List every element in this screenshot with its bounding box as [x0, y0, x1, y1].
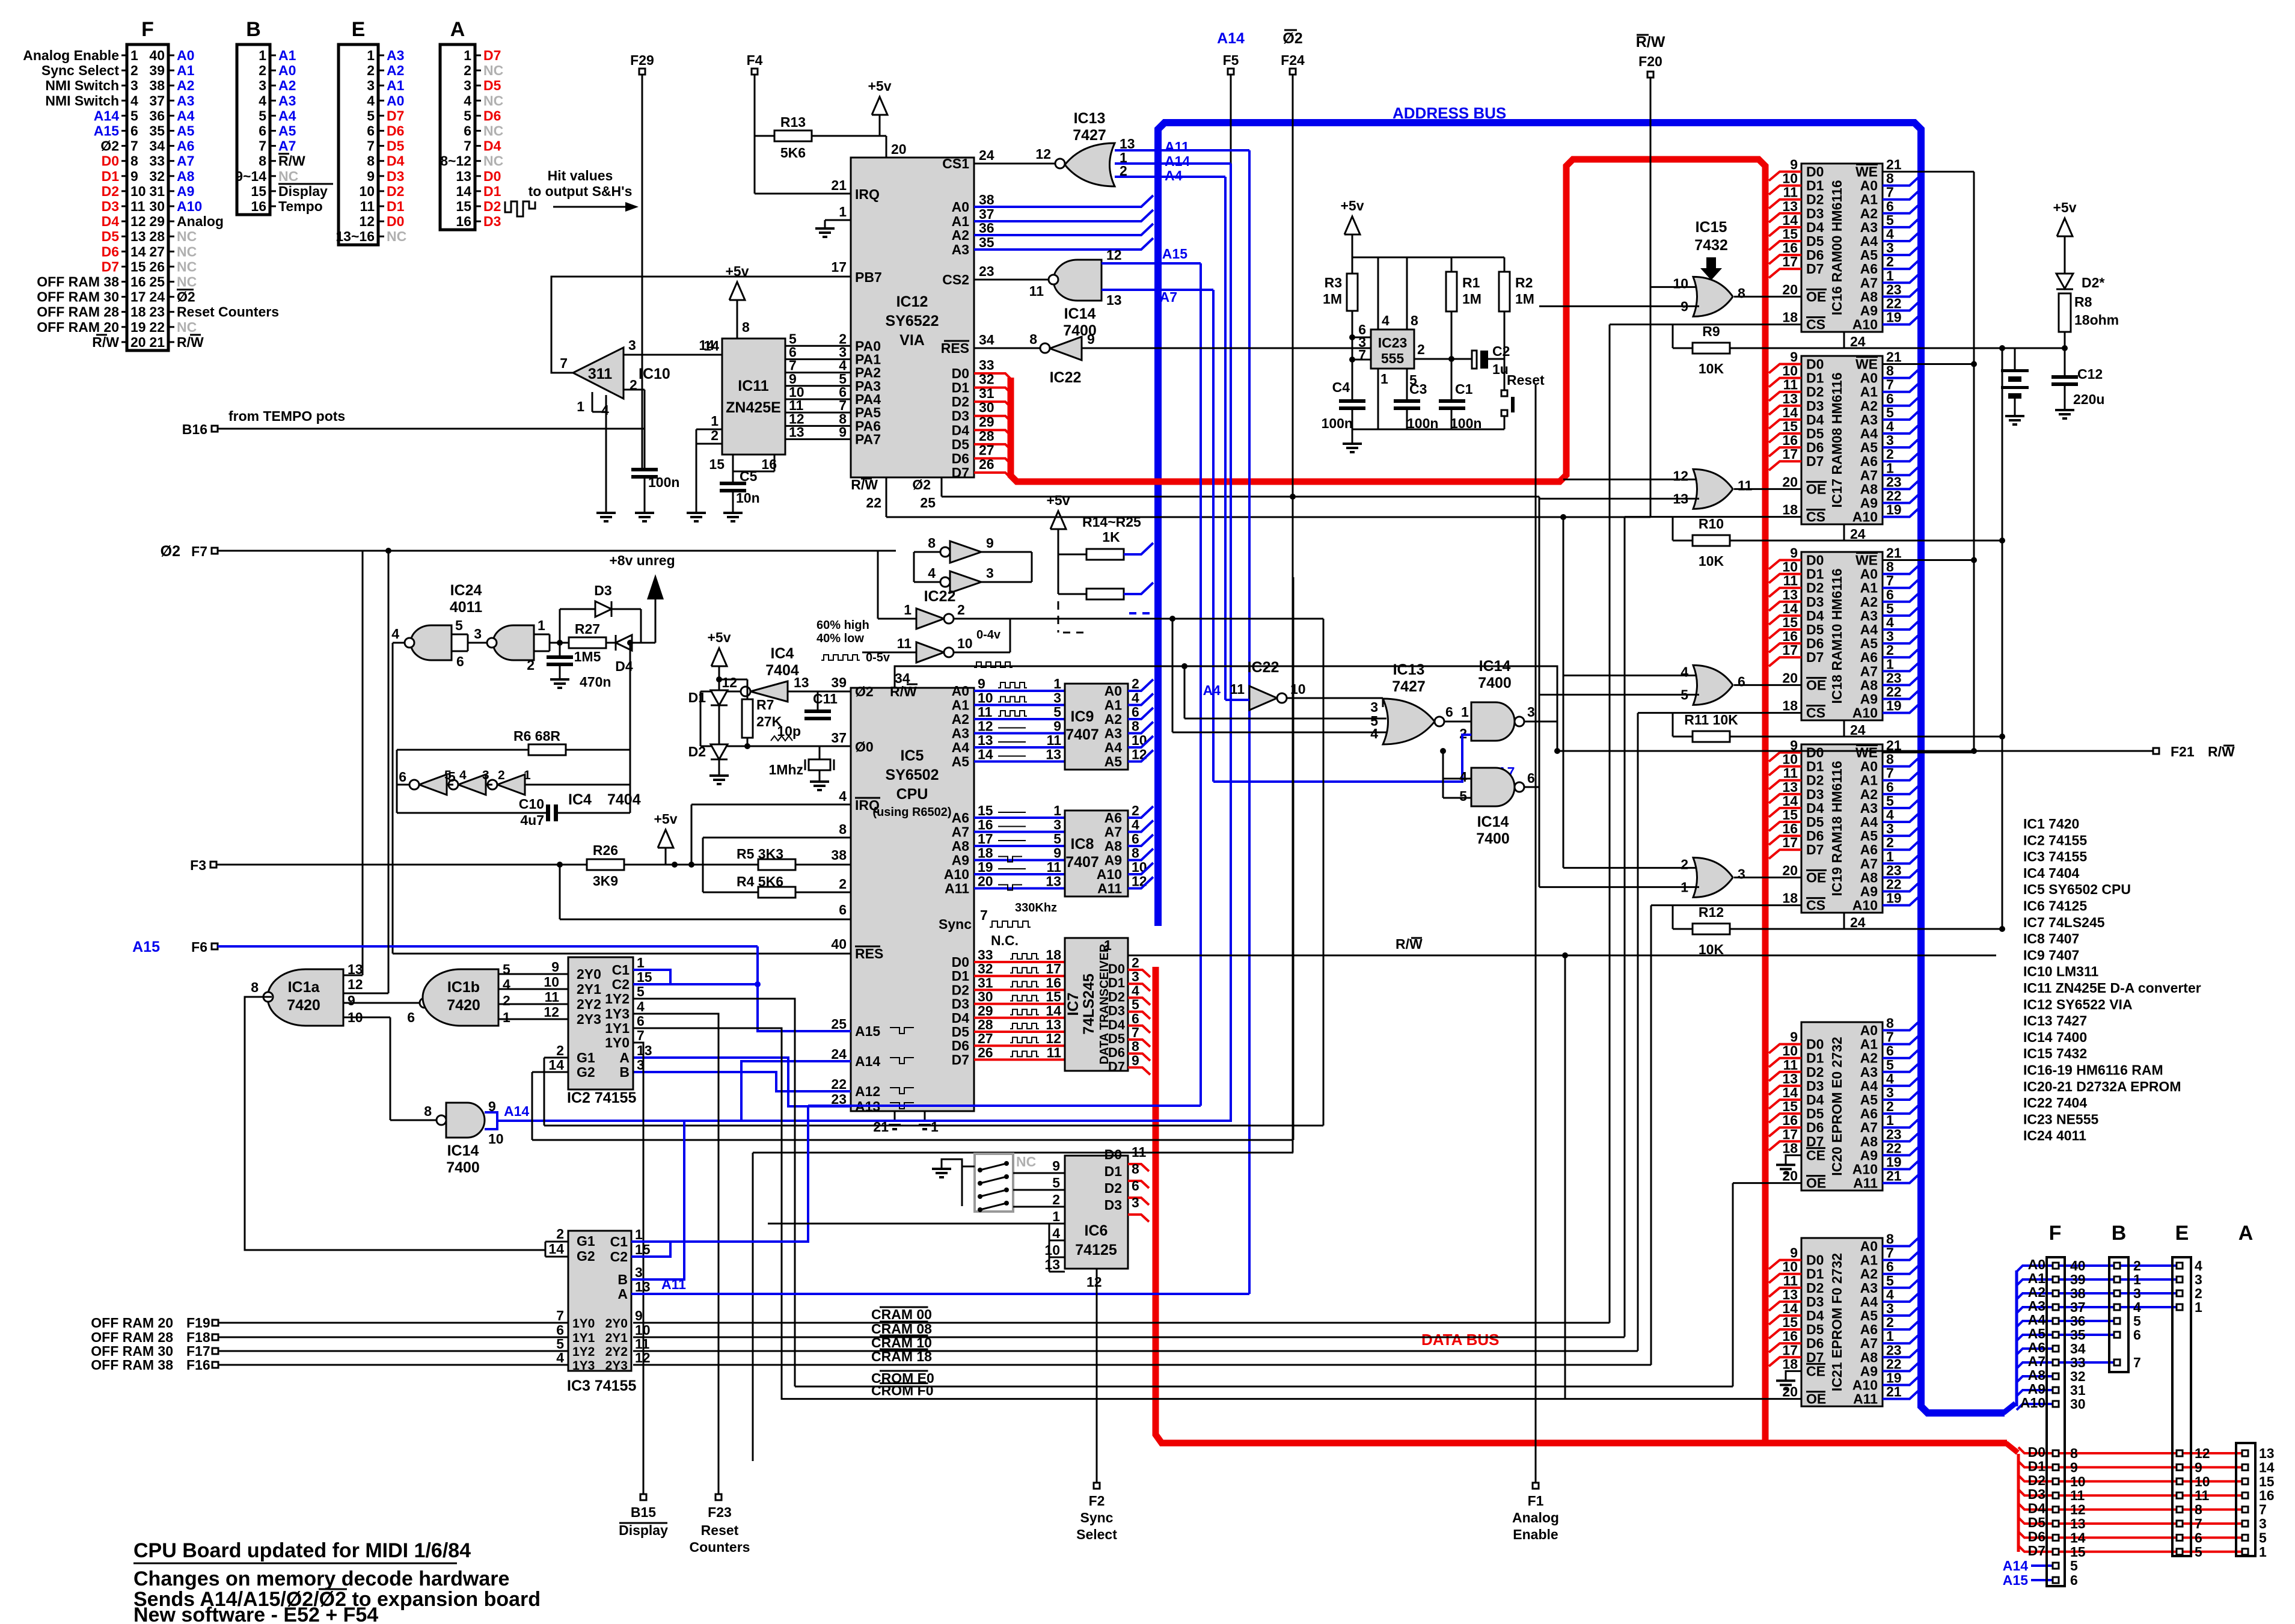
svg-text:35: 35	[979, 234, 994, 250]
svg-text:F29: F29	[630, 52, 654, 68]
svg-text:A0: A0	[1860, 759, 1878, 774]
svg-text:11: 11	[1047, 859, 1062, 875]
svg-text:31: 31	[978, 975, 993, 990]
svg-text:4: 4	[1132, 690, 1139, 706]
svg-text:D7: D7	[2028, 1543, 2045, 1558]
svg-text:E: E	[2175, 1222, 2189, 1245]
svg-text:2: 2	[1886, 642, 1894, 658]
svg-text:IC4: IC4	[771, 645, 794, 662]
svg-text:D0: D0	[387, 213, 404, 229]
svg-text:to output S&H's: to output S&H's	[529, 183, 633, 199]
svg-text:13: 13	[1044, 1257, 1060, 1272]
svg-text:D7: D7	[1806, 649, 1824, 665]
svg-text:74125: 74125	[1075, 1242, 1117, 1258]
svg-text:NC: NC	[177, 259, 197, 274]
svg-text:R/W: R/W	[1636, 34, 1665, 51]
svg-text:IC1 7420: IC1 7420	[2023, 816, 2079, 832]
svg-text:5: 5	[1886, 601, 1894, 616]
svg-text:D2: D2	[2028, 1472, 2045, 1488]
svg-text:4: 4	[1886, 226, 1894, 242]
svg-text:CPU: CPU	[896, 786, 928, 803]
svg-text:NC: NC	[483, 93, 503, 108]
svg-text:A5: A5	[278, 123, 296, 139]
svg-text:1: 1	[464, 47, 471, 63]
svg-text:1: 1	[577, 399, 584, 414]
svg-text:27: 27	[149, 244, 165, 259]
svg-text:7: 7	[367, 138, 375, 154]
svg-text:10K: 10K	[1699, 553, 1724, 569]
svg-text:20: 20	[130, 334, 146, 350]
svg-text:OFF RAM 28: OFF RAM 28	[37, 304, 119, 320]
svg-text:38: 38	[979, 192, 994, 207]
svg-text:A9: A9	[1860, 303, 1878, 319]
svg-text:IC16 RAM00 HM6116: IC16 RAM00 HM6116	[1829, 180, 1845, 316]
svg-text:D6: D6	[1806, 1335, 1824, 1351]
svg-text:4: 4	[637, 999, 645, 1014]
svg-text:13: 13	[1046, 1017, 1061, 1032]
svg-text:6: 6	[130, 123, 138, 139]
svg-text:16: 16	[1046, 975, 1061, 990]
svg-text:4u7: 4u7	[520, 812, 544, 828]
svg-text:Sync: Sync	[1080, 1510, 1114, 1525]
svg-text:2: 2	[503, 993, 510, 1008]
svg-text:IC5: IC5	[901, 747, 924, 764]
svg-text:A2: A2	[1860, 398, 1878, 414]
svg-text:D3: D3	[1806, 1294, 1824, 1310]
svg-text:D3: D3	[1806, 1078, 1824, 1094]
svg-text:A4: A4	[1165, 168, 1183, 183]
svg-text:D2: D2	[952, 982, 969, 997]
svg-text:A0: A0	[1860, 178, 1878, 194]
svg-text:A14: A14	[504, 1103, 529, 1119]
svg-text:18: 18	[1046, 947, 1061, 963]
svg-text:555: 555	[1381, 351, 1405, 366]
svg-text:3: 3	[2259, 1516, 2267, 1531]
svg-text:10: 10	[1782, 1043, 1798, 1059]
svg-text:18ohm: 18ohm	[2074, 312, 2119, 328]
svg-text:3: 3	[259, 78, 266, 93]
svg-text:A10: A10	[1852, 317, 1878, 332]
svg-text:10: 10	[1782, 559, 1798, 575]
svg-text:7432: 7432	[1694, 237, 1728, 254]
svg-text:D1: D1	[1806, 1266, 1824, 1282]
svg-text:35: 35	[149, 123, 165, 139]
svg-text:NC: NC	[483, 123, 503, 139]
svg-text:12: 12	[722, 675, 737, 690]
svg-text:IC9 7407: IC9 7407	[2023, 947, 2079, 963]
svg-text:3: 3	[1886, 628, 1894, 644]
svg-text:6: 6	[2195, 1530, 2202, 1545]
svg-text:A14: A14	[1217, 30, 1245, 47]
svg-text:6: 6	[1445, 704, 1453, 720]
svg-text:A9: A9	[1860, 495, 1878, 511]
svg-text:16: 16	[978, 817, 993, 833]
svg-text:7: 7	[2133, 1355, 2141, 1370]
svg-text:B: B	[619, 1064, 630, 1080]
svg-text:13: 13	[2070, 1516, 2086, 1531]
svg-text:A7: A7	[1105, 824, 1122, 840]
svg-text:IC24 4011: IC24 4011	[2023, 1128, 2086, 1144]
svg-text:A2: A2	[952, 227, 969, 243]
svg-text:5: 5	[367, 108, 375, 123]
svg-text:A3: A3	[1860, 1064, 1878, 1080]
svg-text:D3: D3	[387, 168, 404, 184]
svg-text:1M: 1M	[1515, 291, 1534, 307]
svg-text:CRAM 00: CRAM 00	[871, 1307, 932, 1322]
svg-text:5: 5	[1053, 831, 1061, 847]
svg-text:A6: A6	[952, 810, 969, 826]
svg-text:24: 24	[1850, 526, 1866, 542]
svg-text:4: 4	[259, 93, 266, 108]
svg-text:2: 2	[556, 1043, 564, 1058]
svg-text:1Y0: 1Y0	[605, 1035, 630, 1050]
svg-text:A10: A10	[2020, 1395, 2045, 1411]
svg-text:2: 2	[1132, 676, 1139, 691]
svg-text:IC9: IC9	[1071, 708, 1094, 725]
svg-text:D1: D1	[483, 183, 501, 199]
svg-text:8: 8	[1886, 1016, 1894, 1031]
svg-text:9: 9	[1790, 1029, 1798, 1045]
svg-text:21: 21	[1886, 349, 1902, 365]
svg-text:D5: D5	[483, 78, 501, 93]
svg-text:A3: A3	[952, 726, 969, 741]
svg-text:30: 30	[978, 989, 993, 1005]
svg-text:R9: R9	[1702, 323, 1720, 339]
svg-text:D0: D0	[2028, 1444, 2045, 1460]
svg-text:A1: A1	[177, 63, 195, 78]
svg-text:NC: NC	[177, 319, 197, 335]
svg-text:D2: D2	[1806, 1064, 1824, 1080]
svg-text:13: 13	[1782, 391, 1798, 406]
svg-text:10: 10	[488, 1131, 504, 1147]
svg-text:17: 17	[1782, 446, 1798, 462]
svg-text:NC: NC	[387, 228, 406, 244]
svg-text:14: 14	[548, 1241, 564, 1257]
svg-text:D1: D1	[102, 168, 120, 184]
svg-text:17: 17	[1782, 1342, 1798, 1358]
svg-text:A7: A7	[1860, 1120, 1878, 1135]
svg-text:A15: A15	[94, 123, 119, 139]
svg-text:15: 15	[709, 456, 725, 472]
svg-text:D0: D0	[483, 168, 501, 184]
svg-text:0-4v: 0-4v	[976, 628, 1001, 642]
svg-text:5: 5	[1886, 1273, 1894, 1288]
svg-text:13: 13	[1046, 874, 1061, 889]
svg-text:OE: OE	[1806, 1391, 1826, 1407]
svg-text:D1: D1	[1806, 759, 1824, 774]
svg-text:CS: CS	[1806, 705, 1825, 721]
svg-text:2: 2	[1886, 835, 1894, 850]
svg-text:1: 1	[524, 768, 531, 782]
svg-text:D4: D4	[483, 138, 501, 154]
svg-text:from TEMPO pots: from TEMPO pots	[228, 408, 345, 424]
svg-text:38: 38	[831, 847, 847, 863]
svg-text:A7: A7	[1860, 467, 1878, 483]
svg-text:IC20-21 D2732A EPROM: IC20-21 D2732A EPROM	[2023, 1079, 2181, 1094]
svg-text:3: 3	[635, 1264, 643, 1280]
svg-text:A2: A2	[1105, 711, 1122, 727]
svg-text:A8: A8	[1860, 677, 1878, 693]
svg-text:21: 21	[1886, 545, 1902, 561]
svg-text:D3: D3	[594, 583, 611, 598]
svg-text:9: 9	[1087, 331, 1095, 347]
svg-text:D2: D2	[1108, 989, 1125, 1004]
svg-text:6: 6	[1738, 673, 1745, 689]
svg-text:F1: F1	[1528, 1493, 1544, 1509]
svg-text:9: 9	[978, 676, 985, 691]
svg-text:6: 6	[1886, 391, 1894, 406]
svg-text:+5v: +5v	[2053, 200, 2076, 215]
svg-text:D3: D3	[2028, 1486, 2045, 1502]
svg-text:F2: F2	[1089, 1493, 1105, 1509]
svg-text:21: 21	[149, 334, 165, 350]
svg-text:16: 16	[1782, 628, 1798, 644]
svg-text:7427: 7427	[1073, 127, 1106, 144]
svg-text:15: 15	[978, 803, 993, 818]
svg-text:28: 28	[149, 228, 165, 244]
svg-text:IRQ: IRQ	[855, 186, 880, 202]
svg-text:2: 2	[130, 63, 138, 78]
svg-text:C2: C2	[1492, 343, 1510, 359]
svg-text:D2: D2	[1806, 1280, 1824, 1296]
svg-text:OE: OE	[1806, 1175, 1826, 1191]
svg-text:F19: F19	[186, 1315, 210, 1331]
svg-text:39: 39	[831, 675, 847, 690]
svg-text:3: 3	[1886, 432, 1894, 448]
svg-text:6: 6	[407, 1010, 415, 1025]
svg-text:Tempo: Tempo	[278, 198, 323, 214]
svg-text:A8: A8	[177, 168, 195, 184]
svg-text:5: 5	[1053, 704, 1061, 720]
svg-text:IC14: IC14	[447, 1142, 479, 1159]
svg-text:60% high: 60% high	[817, 619, 869, 632]
svg-text:CS1: CS1	[942, 156, 969, 171]
svg-text:A9: A9	[952, 853, 969, 868]
svg-text:IC4: IC4	[568, 791, 592, 808]
svg-text:13: 13	[2259, 1445, 2275, 1461]
svg-text:A9: A9	[1105, 853, 1122, 868]
svg-text:5: 5	[1886, 1057, 1894, 1073]
svg-text:8: 8	[2195, 1502, 2202, 1518]
svg-text:D0: D0	[1105, 1147, 1122, 1162]
svg-text:(using R6502): (using R6502)	[872, 806, 951, 819]
svg-text:22: 22	[866, 495, 881, 510]
svg-text:18: 18	[1782, 1356, 1798, 1371]
svg-text:IC24: IC24	[450, 582, 482, 599]
svg-text:A0: A0	[387, 93, 404, 108]
svg-text:23: 23	[149, 304, 165, 320]
svg-text:3: 3	[1527, 704, 1535, 720]
svg-text:34: 34	[149, 138, 165, 154]
svg-text:A4: A4	[1860, 1078, 1878, 1094]
svg-text:8: 8	[1886, 363, 1894, 379]
svg-text:IC14: IC14	[1064, 305, 1096, 322]
svg-text:A0: A0	[1860, 1239, 1878, 1254]
svg-text:10: 10	[1782, 171, 1798, 186]
svg-text:30: 30	[979, 400, 994, 415]
svg-text:Reset Counters: Reset Counters	[177, 304, 279, 320]
svg-text:3: 3	[464, 78, 471, 93]
svg-text:17: 17	[1782, 1126, 1798, 1142]
svg-text:D5: D5	[1806, 1322, 1824, 1337]
svg-text:Reset: Reset	[1507, 372, 1545, 388]
svg-text:D5: D5	[102, 228, 120, 244]
svg-text:27: 27	[978, 1031, 993, 1046]
svg-text:8: 8	[1411, 313, 1418, 328]
svg-text:A2: A2	[177, 78, 194, 93]
svg-text:D7: D7	[1806, 1133, 1824, 1149]
svg-text:18: 18	[1782, 698, 1798, 714]
svg-text:3: 3	[130, 78, 138, 93]
svg-text:D3: D3	[1108, 1004, 1125, 1019]
svg-text:C1: C1	[610, 1234, 628, 1249]
svg-text:23: 23	[1886, 670, 1902, 685]
svg-text:18: 18	[1782, 502, 1798, 518]
svg-text:C11: C11	[813, 691, 838, 706]
svg-text:14: 14	[456, 183, 471, 199]
svg-text:4: 4	[839, 788, 847, 804]
svg-text:1: 1	[1461, 704, 1469, 720]
svg-text:Counters: Counters	[690, 1539, 750, 1555]
svg-text:IC6: IC6	[1085, 1222, 1108, 1239]
svg-text:21: 21	[831, 177, 847, 193]
svg-text:6: 6	[464, 123, 471, 139]
svg-text:A8: A8	[1105, 838, 1123, 854]
svg-text:17: 17	[130, 289, 146, 305]
svg-text:14: 14	[1782, 212, 1798, 228]
svg-text:10: 10	[544, 974, 559, 990]
svg-text:2: 2	[839, 876, 847, 892]
svg-text:IC21 EPROM F0 2732: IC21 EPROM F0 2732	[1829, 1253, 1845, 1391]
svg-text:A4: A4	[1860, 426, 1878, 441]
svg-text:9: 9	[839, 424, 847, 440]
svg-text:IC22: IC22	[924, 588, 956, 605]
svg-text:OE: OE	[1806, 677, 1826, 693]
svg-text:D0: D0	[1806, 745, 1824, 761]
svg-text:A15: A15	[1162, 246, 1187, 262]
svg-text:1Mhz: 1Mhz	[769, 762, 804, 777]
svg-text:WE: WE	[1855, 553, 1878, 568]
svg-text:8: 8	[1886, 752, 1894, 767]
svg-text:6: 6	[2070, 1572, 2078, 1588]
svg-text:16: 16	[1782, 821, 1798, 836]
svg-text:32: 32	[979, 372, 994, 387]
svg-text:2Y3: 2Y3	[605, 1359, 628, 1373]
svg-text:IC14: IC14	[1477, 814, 1509, 830]
svg-text:11: 11	[1783, 1273, 1798, 1288]
svg-text:CROM F0: CROM F0	[871, 1383, 934, 1399]
svg-text:13: 13	[1782, 779, 1798, 795]
svg-text:13: 13	[1782, 1071, 1798, 1086]
svg-text:14: 14	[1782, 1301, 1798, 1316]
svg-text:NC: NC	[1016, 1154, 1036, 1169]
svg-text:IC5 SY6502 CPU: IC5 SY6502 CPU	[2023, 881, 2131, 897]
svg-text:24: 24	[979, 147, 994, 163]
svg-text:C12: C12	[2077, 366, 2103, 382]
svg-text:9~14: 9~14	[235, 168, 266, 184]
svg-text:12: 12	[1086, 1274, 1102, 1290]
svg-text:7400: 7400	[1478, 675, 1512, 691]
svg-text:1Y1: 1Y1	[605, 1020, 630, 1036]
svg-text:1: 1	[839, 204, 847, 219]
svg-text:F21: F21	[2171, 744, 2195, 759]
svg-text:10: 10	[2070, 1474, 2086, 1489]
svg-text:F6: F6	[191, 939, 207, 955]
svg-text:D1: D1	[1806, 1050, 1824, 1066]
svg-text:13: 13	[637, 1043, 652, 1058]
svg-text:D1: D1	[387, 198, 405, 214]
svg-text:31: 31	[149, 183, 165, 199]
svg-text:12: 12	[348, 976, 363, 992]
svg-text:6: 6	[367, 123, 375, 139]
svg-text:40: 40	[831, 936, 847, 952]
svg-text:16: 16	[1782, 432, 1798, 448]
svg-text:13: 13	[456, 168, 471, 184]
svg-text:7: 7	[980, 907, 988, 923]
svg-text:+5v: +5v	[654, 811, 677, 827]
svg-text:7427: 7427	[1392, 678, 1426, 695]
svg-text:13: 13	[130, 228, 146, 244]
svg-text:20: 20	[1782, 670, 1798, 685]
svg-text:A6: A6	[1860, 1322, 1878, 1337]
svg-text:1: 1	[711, 413, 719, 429]
svg-text:A14: A14	[94, 108, 119, 123]
svg-text:4: 4	[1886, 1071, 1894, 1086]
svg-text:A2: A2	[952, 711, 969, 727]
svg-text:4: 4	[1370, 726, 1378, 741]
svg-text:4: 4	[459, 768, 467, 782]
svg-text:6: 6	[839, 902, 847, 918]
svg-text:7407: 7407	[1065, 854, 1099, 871]
svg-text:311: 311	[588, 366, 612, 382]
svg-text:A4: A4	[177, 108, 195, 123]
svg-text:R12: R12	[1699, 904, 1724, 920]
svg-text:7: 7	[1886, 1029, 1894, 1045]
svg-text:A10: A10	[1097, 866, 1122, 882]
svg-text:13~16: 13~16	[336, 228, 375, 244]
svg-text:DATA BUS: DATA BUS	[1421, 1331, 1500, 1349]
svg-text:D3: D3	[952, 996, 969, 1012]
svg-text:15: 15	[1782, 614, 1798, 630]
svg-text:25: 25	[149, 274, 165, 290]
svg-text:CS: CS	[1806, 317, 1825, 332]
svg-text:10: 10	[130, 183, 146, 199]
svg-text:A3: A3	[387, 47, 404, 63]
svg-text:D1: D1	[952, 380, 970, 396]
svg-text:5: 5	[259, 108, 266, 123]
svg-text:7: 7	[1886, 377, 1894, 393]
svg-text:Ø2: Ø2	[912, 477, 931, 492]
svg-text:OFF RAM 20: OFF RAM 20	[37, 319, 119, 335]
svg-text:4: 4	[1886, 614, 1894, 630]
svg-text:D6: D6	[1806, 440, 1824, 455]
svg-text:4: 4	[1459, 769, 1467, 785]
svg-text:1Y2: 1Y2	[572, 1345, 595, 1359]
svg-text:F: F	[141, 18, 154, 41]
svg-text:8: 8	[367, 153, 375, 169]
svg-text:WE: WE	[1855, 745, 1878, 761]
svg-text:D2: D2	[1806, 580, 1824, 596]
svg-text:12: 12	[978, 719, 993, 734]
svg-text:A4: A4	[1860, 233, 1878, 249]
svg-text:A4: A4	[952, 740, 970, 755]
svg-text:A3: A3	[1860, 1280, 1878, 1296]
svg-text:13: 13	[635, 1279, 651, 1295]
svg-text:9: 9	[1790, 349, 1798, 365]
svg-text:9: 9	[1790, 157, 1798, 173]
svg-text:1: 1	[2259, 1544, 2267, 1560]
svg-text:D3: D3	[952, 408, 969, 424]
